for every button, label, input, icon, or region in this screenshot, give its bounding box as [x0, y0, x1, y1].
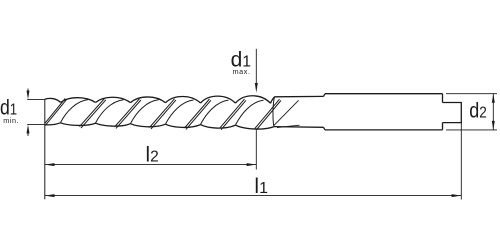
d1 max arrow	[255, 83, 258, 93]
flute leaf edge 1	[61, 100, 89, 123]
svg-text:min.: min.	[3, 116, 19, 125]
shank bottom line	[325, 129, 443, 131]
d2 dimension line	[492, 94, 494, 130]
d1 min bottom extension line	[27, 124, 45, 126]
flute land 2 (double line)	[80, 99, 106, 129]
l1 arrow left	[45, 194, 55, 197]
neck bottom line	[274, 126, 324, 129]
neck top line	[275, 95, 324, 97]
flute land 5 (double line)	[185, 99, 211, 129]
l1 arrow right	[452, 194, 462, 197]
svg-text:l2: l2	[146, 144, 159, 167]
l1 dimension line	[45, 195, 462, 197]
flute runout diagonal	[274, 100, 299, 125]
d2 bottom extension line	[446, 129, 497, 131]
flute land 1 (double line, at tip face)	[45, 99, 67, 126]
d2 arrow down	[492, 121, 495, 130]
flute leaf edge 6	[236, 100, 264, 125]
flute bottom scalloped outline	[45, 123, 274, 129]
d1 min arrow up	[27, 125, 30, 134]
flute land 3 (double line)	[115, 99, 141, 129]
flute land 4 (double line)	[150, 99, 176, 129]
flute leaf edge 5	[201, 100, 229, 124]
shank step up (neck to shank)	[324, 94, 326, 97]
svg-text:l1: l1	[254, 175, 268, 198]
tang outline	[443, 103, 462, 123]
flute leaf edge 2	[96, 100, 124, 123]
d1 min dimension line above	[27, 89, 29, 97]
flute end boundary curve	[273, 97, 275, 126]
l2 dimension line	[45, 164, 256, 166]
l2 right extension line	[255, 131, 257, 170]
svg-text:d2: d2	[469, 100, 487, 123]
d2 arrow up	[492, 94, 495, 103]
reamer tip end face and left extension line	[44, 99, 46, 199]
shank top line	[325, 93, 443, 95]
d1 min top extension line	[27, 98, 45, 100]
shank step down (neck to shank)	[324, 127, 326, 130]
tang step front face	[442, 94, 444, 130]
flute top scalloped outline	[45, 96, 275, 103]
flute runout lower diagonal	[277, 125, 300, 127]
svg-text:max.: max.	[233, 67, 251, 76]
flute leaf edge 3	[131, 100, 159, 124]
flute land 6 (double line)	[220, 99, 246, 130]
d1 min dimension line below	[27, 128, 29, 136]
d1 min arrow down	[27, 91, 30, 100]
flute land 7 (double line)	[255, 99, 281, 130]
l1 right extension line	[460, 123, 462, 200]
d2 top extension line	[446, 93, 497, 95]
l2 arrow left	[45, 163, 55, 166]
d1 max leader line	[255, 49, 257, 84]
flute leaf edge 4	[166, 100, 194, 124]
l2 arrow right	[247, 163, 257, 166]
